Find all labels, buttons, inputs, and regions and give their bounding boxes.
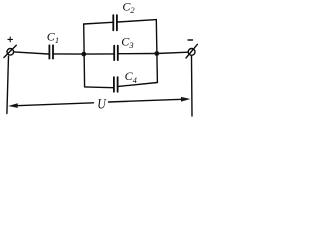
svg-text:U: U <box>97 97 107 113</box>
dimension arrowhead right <box>181 97 190 102</box>
wire right bus <box>156 20 157 83</box>
wire bottom branch left <box>85 86 113 89</box>
plus sign <box>8 37 13 42</box>
capacitor C4 <box>114 77 118 92</box>
capacitor C3 <box>114 46 118 60</box>
dimension line U left segment <box>17 103 94 106</box>
svg-text:C1: C1 <box>47 30 59 46</box>
terminal right <box>186 44 197 58</box>
dimension arrowhead left <box>8 103 18 108</box>
wire C1 to node A <box>54 53 84 55</box>
capacitor C1 <box>49 45 53 58</box>
node B junction dot <box>154 51 159 56</box>
wire C3 to node B <box>119 53 157 55</box>
capacitor C2 <box>113 15 117 30</box>
node A junction dot <box>81 52 86 57</box>
wire top branch right <box>118 20 156 22</box>
wire terminal-left to C1 <box>14 52 48 54</box>
wire right dimension leader <box>191 56 194 116</box>
minus sign <box>188 39 192 41</box>
terminal left <box>4 45 16 57</box>
wire top branch left <box>84 22 113 24</box>
svg-text:C4: C4 <box>125 69 138 85</box>
svg-text:C3: C3 <box>121 35 133 51</box>
svg-text:C2: C2 <box>122 0 135 15</box>
wire bottom branch right <box>119 83 158 87</box>
dimension line U right segment <box>109 99 183 102</box>
wire node B to terminal-right <box>157 52 188 53</box>
wire left bus <box>83 24 86 87</box>
wire left dimension leader <box>7 56 9 113</box>
wire node A to C3 <box>86 53 113 55</box>
